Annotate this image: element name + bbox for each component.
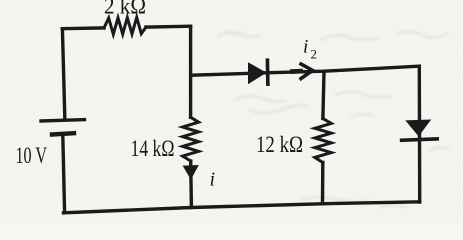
svg-text:2: 2: [311, 47, 318, 62]
diode D2 cathode bar: [400, 139, 439, 141]
battery V1 short plate: [52, 133, 74, 134]
wire left vertical lower: [63, 136, 65, 213]
wire middle vertical upper: [189, 26, 192, 117]
wire middle horizontal: [192, 66, 420, 75]
wire top-left horizontal: [62, 26, 104, 30]
resistor R3 12 kOhm zigzag: [315, 119, 332, 163]
wire top-right horizontal: [146, 25, 191, 29]
svg-text:i: i: [303, 37, 308, 58]
wire bottom: [64, 202, 420, 213]
wire branch 12k vertical upper: [323, 72, 324, 119]
diode D1 cathode bar: [266, 58, 270, 86]
svg-text:i: i: [210, 169, 216, 191]
svg-text:14 kΩ: 14 kΩ: [131, 136, 175, 161]
resistor R2 14 kOhm zigzag: [183, 117, 199, 161]
diode D2 triangle: [405, 120, 431, 137]
diode D1 triangle: [248, 62, 267, 84]
current arrow i2 shaft thickening: [290, 69, 303, 74]
wire branch 12k vertical lower: [321, 163, 325, 204]
wire left vertical upper: [62, 29, 64, 118]
battery V1 long plate: [41, 120, 85, 121]
current arrow i2 head: [300, 63, 313, 79]
current arrow i (down) on middle branch: [183, 165, 199, 180]
svg-text:2 kΩ: 2 kΩ: [104, 0, 146, 19]
resistor R1 2 kOhm zigzag: [104, 17, 146, 34]
svg-text:12 kΩ: 12 kΩ: [256, 132, 303, 157]
wire right vertical: [418, 66, 422, 202]
svg-text:10 V: 10 V: [16, 143, 48, 168]
wire middle vertical lower: [189, 161, 193, 208]
